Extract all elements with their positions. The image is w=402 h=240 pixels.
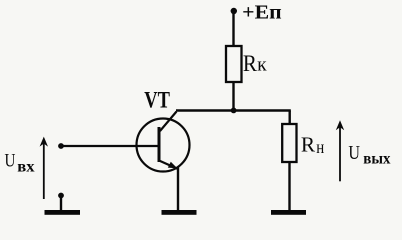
- svg-text:U: U: [5, 151, 16, 172]
- svg-text:VT: VT: [144, 88, 170, 113]
- svg-text:+Еп: +Еп: [242, 2, 282, 24]
- svg-text:U: U: [348, 142, 360, 164]
- svg-text:R: R: [243, 51, 258, 76]
- svg-text:R: R: [301, 132, 315, 156]
- svg-text:вх: вх: [17, 158, 34, 175]
- svg-text:вых: вых: [363, 151, 390, 168]
- svg-text:к: к: [257, 55, 267, 76]
- svg-text:н: н: [316, 137, 324, 157]
